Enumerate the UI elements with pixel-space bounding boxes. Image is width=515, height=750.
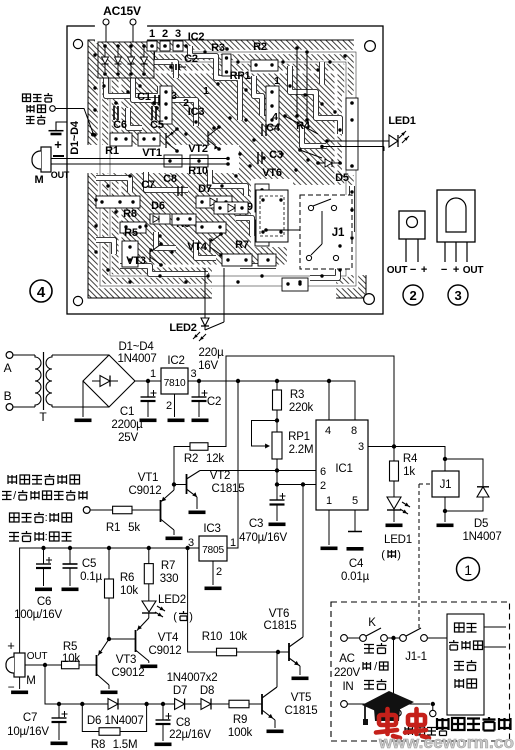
- LED1 diode symbol: [387, 497, 401, 509]
- potentiometer RP1: [276, 421, 278, 433]
- transistor VT1 PNP: [160, 500, 162, 522]
- node pin3: [392, 444, 396, 448]
- watermark chongchong red characters: [376, 709, 400, 738]
- mounting hole top-left: [73, 39, 82, 48]
- svg-text:330: 330: [160, 573, 179, 585]
- RP1 wiper loop wire: [252, 421, 278, 447]
- svg-text:R10: R10: [188, 165, 208, 177]
- VT2 ground: [189, 511, 206, 515]
- svg-text:12k: 12k: [206, 453, 224, 465]
- bridge ground: [75, 419, 92, 423]
- svg-text:R8: R8: [123, 208, 137, 220]
- IC1 pin1 ground: [321, 547, 338, 551]
- svg-text:4: 4: [37, 284, 46, 301]
- svg-text::: :: [45, 531, 48, 543]
- svg-text:3: 3: [191, 368, 197, 380]
- R1 on board: [110, 133, 132, 146]
- svg-text:220µ: 220µ: [198, 347, 224, 359]
- svg-text:+: +: [7, 638, 14, 653]
- svg-text:R3: R3: [290, 389, 304, 401]
- resistor R9: [229, 700, 249, 708]
- PCB board outline: [67, 26, 383, 314]
- svg-text:3: 3: [454, 288, 461, 303]
- svg-text:220V: 220V: [334, 667, 361, 679]
- input terminal circle: [83, 507, 90, 514]
- LED2 symbol below board: [201, 318, 209, 326]
- svg-text:VT1: VT1: [138, 472, 159, 484]
- wire pin2 line: [277, 484, 316, 486]
- svg-text:C4: C4: [266, 122, 281, 134]
- svg-text:www.eeworm.com: www.eeworm.com: [378, 733, 515, 750]
- svg-text:2200µ: 2200µ: [111, 419, 143, 431]
- svg-text:VT4: VT4: [158, 632, 179, 644]
- capacitor C6: [43, 548, 45, 564]
- satellite receiver power supply box: [447, 614, 484, 715]
- svg-text:2.2M: 2.2M: [289, 444, 314, 456]
- node to IC3 input: [236, 379, 240, 383]
- VT5 ground: [267, 730, 284, 734]
- svg-text:C7: C7: [141, 179, 155, 191]
- long wire vertical net b: [306, 52, 308, 120]
- svg-text:R1: R1: [106, 522, 120, 534]
- svg-text:5: 5: [352, 495, 358, 507]
- svg-text:C2: C2: [207, 396, 221, 408]
- svg-text:C1: C1: [137, 91, 151, 103]
- pin3 net upper loop to R2: [208, 356, 394, 447]
- relay J1 box: [432, 471, 459, 497]
- svg-text:R5: R5: [124, 227, 138, 239]
- item 3 circled number: [448, 285, 468, 305]
- resistor R10: [217, 648, 237, 656]
- J1 ground wire: [444, 511, 446, 522]
- svg-text:D7: D7: [198, 183, 212, 195]
- chinese control text line3 (gao dian ping: kai ji): [10, 512, 45, 523]
- svg-text:K: K: [368, 617, 376, 629]
- AC input terminal circles top: [341, 635, 348, 642]
- node VT6 collector branch: [301, 482, 305, 486]
- svg-text:7805: 7805: [202, 545, 224, 556]
- svg-text:M: M: [26, 675, 35, 687]
- svg-text:0.1µ: 0.1µ: [80, 571, 102, 583]
- svg-text:): ): [189, 611, 192, 623]
- IC3 pin2 ground: [212, 561, 214, 585]
- bridge left corner to ground wire: [82, 381, 84, 417]
- satellite box right stubs: [484, 626, 506, 628]
- node RP1 bottom: [275, 468, 279, 472]
- AC switch chinese text (jiao liu kai/guan ji jian): [364, 643, 387, 654]
- J1 contact circles on board: [308, 205, 313, 210]
- svg-text:VT6: VT6: [262, 167, 282, 179]
- svg-text:1.5M: 1.5M: [113, 739, 138, 750]
- J1 coil pads on board: [321, 211, 323, 244]
- svg-text:R3: R3: [211, 42, 225, 54]
- diode D5: [477, 487, 489, 497]
- svg-text:C9012: C9012: [129, 485, 162, 497]
- dashed link J1 to J1-1: [419, 483, 432, 485]
- wire pin6 line: [200, 470, 316, 472]
- svg-text:C9012: C9012: [112, 667, 145, 679]
- diagonal switch wire near D5: [300, 150, 322, 158]
- svg-text:1: 1: [149, 28, 155, 40]
- bottom terminal circle: [341, 701, 348, 708]
- svg-text:7810: 7810: [164, 378, 186, 389]
- IC1 pin1 ground wire: [328, 510, 330, 545]
- switch K circle b: [381, 635, 388, 642]
- wire down to VT6 collector: [302, 485, 304, 638]
- svg-text:(: (: [381, 549, 385, 561]
- node K J1-1 junction: [391, 636, 395, 640]
- wire R2 to VT1 collector node: [174, 447, 190, 485]
- svg-text:8: 8: [351, 425, 357, 437]
- svg-text:C4: C4: [349, 558, 364, 570]
- svg-text:4: 4: [325, 425, 331, 437]
- main +rail from bridge to IC1 pin8: [135, 381, 355, 420]
- svg-text:VT2: VT2: [188, 143, 208, 155]
- svg-text:C1: C1: [120, 406, 134, 418]
- wire R10 to node: [237, 651, 278, 653]
- capacitor C5: [69, 548, 71, 564]
- node R6-VT4-VT3: [107, 637, 111, 641]
- satellite box text (wei xing jie shou ji kai guan dian yuan): [455, 623, 477, 632]
- capacitor C7: [58, 704, 60, 718]
- node R10 branch: [185, 546, 189, 550]
- VT5 VT6 package footprint: [256, 190, 288, 242]
- C7 ground: [51, 742, 68, 746]
- wire B to transformer: [13, 406, 35, 408]
- svg-text:2: 2: [162, 28, 168, 40]
- vertical RP1 to C3: [276, 471, 278, 501]
- svg-text:IC2: IC2: [188, 31, 205, 43]
- wire LED2 to VT4 emitter: [148, 613, 150, 618]
- svg-text:D1~D4: D1~D4: [118, 341, 154, 353]
- svg-text:R2: R2: [253, 41, 267, 53]
- svg-text:T: T: [39, 410, 47, 424]
- node VT6 base: [276, 650, 280, 654]
- J1 relay dashed outline on board: [300, 195, 352, 269]
- LED1 symbol right of board: [389, 135, 398, 147]
- LED1 wire to ground: [393, 510, 395, 522]
- transformer primary terminals A B: [395, 710, 401, 716]
- wire to D5 top: [445, 459, 483, 486]
- bottom wire: [348, 703, 431, 705]
- switch K circle a: [360, 635, 367, 642]
- wire to R10: [188, 548, 217, 652]
- svg-text:6: 6: [320, 466, 326, 478]
- svg-text:1: 1: [464, 562, 472, 578]
- terminal A circle: [6, 352, 13, 359]
- wire R9 to VT5: [249, 703, 262, 705]
- wire pin3 to J1 and D5: [394, 447, 445, 460]
- LED2 arrows: [157, 606, 165, 611]
- wires between contacts: [348, 637, 360, 639]
- main transformer chinese label (zhu bian ya qi): [405, 726, 448, 736]
- svg-text:10µ/16V: 10µ/16V: [7, 726, 49, 738]
- pad block D1-D4 rectifier diodes: [98, 42, 154, 78]
- capacitor C4 from IC1 pin5: [354, 510, 356, 531]
- resistor R5: [62, 661, 80, 669]
- svg-text:C3: C3: [249, 518, 263, 530]
- svg-text:D7: D7: [173, 685, 187, 697]
- svg-text:−: −: [441, 264, 447, 276]
- transistor VT3 PNP: [96, 655, 98, 676]
- svg-text:OUT: OUT: [463, 265, 484, 276]
- svg-text:D5: D5: [474, 518, 488, 530]
- resistor R7: [148, 548, 150, 564]
- svg-text:C8: C8: [176, 717, 190, 729]
- R10 on board: [164, 155, 182, 167]
- M motor symbol (left): [41, 147, 51, 172]
- svg-text:R10: R10: [202, 631, 223, 643]
- svg-text:25V: 25V: [118, 432, 138, 444]
- svg-text:+: +: [421, 264, 427, 276]
- VT5 vertical label on board: [278, 204, 290, 224]
- wire A to transformer: [13, 354, 35, 356]
- svg-text:1k: 1k: [403, 466, 415, 478]
- svg-text:OUT: OUT: [27, 651, 48, 662]
- pads bottom white band: [282, 278, 308, 291]
- svg-text:+: +: [453, 264, 459, 276]
- hatched copper pour regions: [88, 40, 366, 298]
- svg-text:C2: C2: [184, 53, 198, 65]
- svg-text:D1~D4: D1~D4: [69, 120, 81, 155]
- svg-text:C6: C6: [37, 596, 51, 608]
- svg-text:1N4007: 1N4007: [462, 531, 501, 543]
- svg-text:C5: C5: [150, 119, 164, 131]
- bridge diode symbol: [100, 376, 110, 387]
- svg-text:1N4007: 1N4007: [104, 715, 143, 727]
- wire D5 bottom: [445, 497, 483, 511]
- wire R1 to VT1 base: [132, 509, 161, 511]
- capacitor C1: [147, 381, 149, 397]
- svg-text:1: 1: [326, 495, 332, 507]
- item 2 package drawing: [399, 211, 425, 239]
- svg-text:2: 2: [216, 566, 222, 578]
- wire input to R1: [90, 509, 113, 511]
- J1 bottom wire: [444, 497, 446, 511]
- svg-text:C8: C8: [163, 173, 177, 185]
- chinese control text line2 (kai/guan ji kong zhi dian ping): [2, 492, 12, 500]
- LED1 ground: [386, 524, 403, 528]
- svg-text:RP1: RP1: [230, 70, 251, 82]
- wire J1 top: [444, 459, 446, 471]
- IC1 pin3 output wire: [368, 446, 394, 448]
- bridge rectifier D1-D4 diamond: [83, 355, 135, 407]
- svg-text:A: A: [4, 361, 12, 375]
- transistor VT2 NPN: [186, 474, 188, 494]
- capacitor C8: [162, 704, 164, 720]
- node R7: [147, 546, 151, 550]
- resistor R3: [276, 381, 278, 390]
- pad row under C7: [96, 196, 140, 208]
- node D6-R8 right: [144, 702, 148, 706]
- resistor R1: [113, 506, 132, 514]
- svg-text:D6: D6: [87, 715, 101, 727]
- svg-text:22µ/16V: 22µ/16V: [169, 729, 211, 741]
- C8 ground: [155, 743, 172, 747]
- node C6: [41, 546, 45, 550]
- svg-text:R1: R1: [105, 145, 119, 157]
- svg-text:C6: C6: [113, 119, 127, 131]
- IC1 box: [316, 420, 368, 510]
- node VT1-R2-VT2: [172, 482, 176, 486]
- terminal B circle: [6, 404, 13, 411]
- svg-text:AC: AC: [339, 653, 355, 665]
- svg-text:4: 4: [272, 111, 278, 123]
- svg-text:OUT: OUT: [387, 265, 408, 276]
- item 3 package drawing: [437, 190, 475, 242]
- switch K blade: [366, 628, 381, 636]
- svg-text:470µ/16V: 470µ/16V: [239, 532, 287, 544]
- svg-text:LED2: LED2: [169, 322, 196, 334]
- node pin2 chain: [275, 482, 279, 486]
- LED2 wires from board bottom: [204, 268, 206, 318]
- LED1 arrows: [402, 502, 410, 507]
- circled number 1: [457, 558, 480, 581]
- svg-text:10k: 10k: [62, 653, 80, 665]
- svg-text:VT3: VT3: [126, 255, 146, 267]
- svg-text:M: M: [35, 174, 44, 186]
- transistor VT6 NPN: [288, 643, 290, 661]
- C5 ground: [62, 588, 79, 592]
- transistor VT5 NPN: [261, 694, 263, 715]
- svg-text:D5: D5: [335, 172, 349, 184]
- svg-text:VT1: VT1: [142, 147, 162, 159]
- node D6-R8 left: [80, 702, 84, 706]
- svg-text:VT3: VT3: [116, 654, 137, 666]
- svg-text:D8: D8: [200, 685, 214, 697]
- routing channels on pour: [106, 76, 160, 96]
- node R6: [107, 546, 111, 550]
- svg-text:R5: R5: [63, 641, 77, 653]
- mounting hole bottom-right: [364, 294, 375, 305]
- node R3-RP1 junction: [275, 418, 279, 422]
- VT3 ground: [101, 691, 118, 695]
- J1-1 circle a: [400, 635, 407, 642]
- watermark graduation cap: [362, 691, 414, 716]
- LED2 diode symbol: [142, 601, 156, 612]
- svg-text:R2: R2: [184, 453, 198, 465]
- C6 ground: [35, 588, 52, 592]
- M minus sign: [53, 155, 64, 157]
- J1-1 blade: [406, 628, 421, 636]
- svg-text:R6: R6: [120, 572, 134, 584]
- svg-text:5k: 5k: [128, 522, 140, 534]
- capacitor C2: [198, 381, 200, 397]
- node R3 top: [275, 379, 279, 383]
- M wires into board: [51, 158, 228, 160]
- long wire vertical net a: [296, 48, 298, 116]
- svg-text:VT4: VT4: [187, 241, 208, 253]
- node C8: [161, 702, 165, 706]
- IC3 7805 box: [199, 536, 227, 561]
- IC2 pin2 ground wire: [174, 394, 176, 417]
- diagonal net to LED1 pads: [285, 116, 318, 134]
- C2 ground: [192, 419, 209, 423]
- control terminal circle: [50, 106, 56, 112]
- svg-text:2: 2: [166, 400, 172, 412]
- svg-text:VT6: VT6: [269, 608, 290, 620]
- node J1 bottom: [443, 509, 447, 513]
- right channel pads: [346, 98, 358, 170]
- svg-text:VT5: VT5: [291, 692, 312, 704]
- svg-text:3: 3: [358, 441, 364, 453]
- resistor R4: [393, 447, 395, 462]
- svg-text:D6: D6: [151, 200, 165, 212]
- resistor R2: [190, 443, 208, 451]
- svg-text:RP1: RP1: [288, 431, 310, 443]
- wire M to R5 with node: [25, 664, 62, 666]
- svg-text:16V: 16V: [198, 360, 218, 372]
- svg-text:+: +: [54, 137, 62, 152]
- LED1 wires from board: [327, 140, 389, 142]
- svg-text:1: 1: [203, 85, 209, 97]
- capacitor C3: [270, 499, 285, 501]
- transformer T primary winding: [35, 355, 41, 407]
- svg-text:2: 2: [320, 480, 326, 492]
- item 2 circled number: [403, 285, 423, 305]
- diode D7: [175, 699, 185, 710]
- wire secondary top to bridge: [52, 354, 109, 356]
- svg-text:OUT: OUT: [51, 170, 70, 180]
- svg-text:C1815: C1815: [212, 483, 245, 495]
- control wire into board diagonal to pad: [55, 109, 93, 134]
- svg-text:C1815: C1815: [264, 620, 297, 632]
- VT1 ground: [166, 537, 183, 541]
- svg-text:R7: R7: [235, 239, 249, 251]
- node C2: [197, 379, 201, 383]
- node C5: [68, 546, 72, 550]
- R8 parallel loop: [82, 704, 99, 732]
- svg-text:IC3: IC3: [188, 106, 205, 118]
- svg-text::: :: [45, 512, 48, 524]
- watermark site name fake glyphs: [437, 717, 511, 731]
- svg-text:IN: IN: [342, 681, 353, 693]
- svg-text:C9012: C9012: [149, 645, 182, 657]
- svg-text:1N4007: 1N4007: [117, 353, 156, 365]
- C3 ground: [269, 523, 286, 527]
- transistor VT4 PNP: [135, 630, 137, 652]
- svg-text:LED1: LED1: [384, 534, 412, 546]
- AC15V wires into board: [105, 25, 107, 47]
- transformer T secondary winding: [46, 355, 52, 407]
- svg-text:): ): [397, 549, 400, 561]
- svg-text:C7: C7: [23, 712, 37, 724]
- svg-text:220k: 220k: [289, 402, 314, 414]
- svg-text:VT2: VT2: [210, 470, 231, 482]
- D1~D4 vertical label: [69, 120, 81, 155]
- transformer core: [43, 352, 45, 410]
- scattered via dots on pour: [93, 53, 96, 56]
- diode D8: [201, 699, 211, 710]
- IC2 7810 regulator box: [161, 368, 188, 394]
- svg-text:R7: R7: [161, 560, 175, 572]
- wire rail down to IC3 input: [227, 381, 238, 548]
- wire node down to low rail: [45, 665, 262, 704]
- wire base VT2: [174, 484, 187, 486]
- mounting hole bottom-left: [73, 296, 82, 305]
- AC mains dashed box: [331, 602, 510, 741]
- svg-text:100k: 100k: [228, 727, 253, 739]
- svg-text:1: 1: [150, 368, 156, 380]
- svg-text:IC2: IC2: [167, 355, 184, 367]
- svg-text:J1: J1: [332, 227, 345, 239]
- item 4 circled number: [30, 280, 52, 302]
- node bottom: [391, 702, 395, 706]
- resistor R6: [108, 548, 110, 579]
- svg-text:R4: R4: [403, 453, 418, 465]
- svg-text:10k: 10k: [120, 585, 138, 597]
- IC2 ground: [168, 419, 185, 423]
